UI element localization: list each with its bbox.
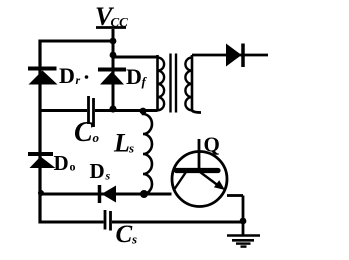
diode Do (28, 154, 56, 168)
svg-text:D: D (126, 64, 142, 89)
svg-text:s: s (128, 141, 134, 156)
svg-text:L: L (113, 129, 130, 158)
capacitor Cs (105, 210, 111, 231)
diode Dr (28, 69, 58, 85)
wire: horizontal y=110.5 left of Co (40, 109, 87, 112)
label Cs (116, 221, 138, 248)
wire: left vertical rail x=40 (38, 40, 41, 224)
node: junction dot at (113,109) (109, 105, 116, 112)
transistor Q (172, 152, 227, 207)
node: junction dot at (41,193) (38, 190, 44, 196)
wire: top horizontal rail y=41 (39, 40, 113, 43)
svg-text:r: r (76, 73, 81, 87)
wire: bottom rail y=222 left of Cs (40, 221, 104, 224)
svg-text:D: D (59, 63, 75, 88)
diode output rectifier (top right) (226, 44, 243, 68)
diode Df (98, 70, 126, 85)
svg-text:Q: Q (204, 133, 220, 157)
svg-text:f: f (142, 74, 148, 89)
wire: emitter to right corner (227, 194, 243, 197)
svg-text:C: C (116, 221, 133, 248)
inductor Ls (143, 111, 152, 194)
label Dr (59, 63, 88, 88)
label Ds (90, 159, 111, 183)
Vcc terminal label (95, 2, 128, 31)
svg-text:C: C (74, 117, 93, 148)
capacitor Co (89, 96, 94, 127)
ground (227, 221, 260, 247)
transformer T1 core (171, 54, 177, 113)
wire: Vcc vertical line x=113 (112, 29, 115, 110)
label Do (54, 151, 76, 175)
node: junction dot at (143,111) (140, 108, 147, 115)
label Ls (113, 129, 134, 158)
svg-text:D: D (90, 159, 105, 183)
svg-text:o: o (93, 130, 100, 145)
svg-text:D: D (54, 151, 69, 175)
wire: emitter corner down to ground node (242, 196, 245, 223)
wire: horizontal y=110.5 from Co to primary bottom (95, 109, 158, 112)
label Co (74, 117, 100, 148)
transformer T1 secondary winding (185, 55, 192, 111)
wire: base row y=194 from left rail to transistor (40, 193, 172, 196)
wire: Vcc node to transformer primary top y=56 (113, 56, 158, 59)
label Df (126, 64, 148, 89)
node: junction dot at (144,194) (140, 190, 148, 198)
node: junction dot at (243,221) (240, 218, 247, 225)
wire: transistor collector lead from above (198, 139, 201, 170)
node: junction dot at (113,55) (110, 52, 117, 59)
node: Vcc junction dot at (113,41) (110, 38, 117, 45)
wire: bottom rail y=222 right of Cs to ground node (112, 221, 243, 224)
svg-text:s: s (131, 232, 137, 247)
wire: secondary top to output y=55 (192, 54, 268, 57)
svg-text:s: s (105, 169, 111, 183)
wire: secondary bottom stub (192, 111, 201, 113)
diode Ds (100, 185, 117, 203)
svg-text:o: o (70, 160, 76, 174)
transformer T1 primary winding (158, 55, 165, 111)
